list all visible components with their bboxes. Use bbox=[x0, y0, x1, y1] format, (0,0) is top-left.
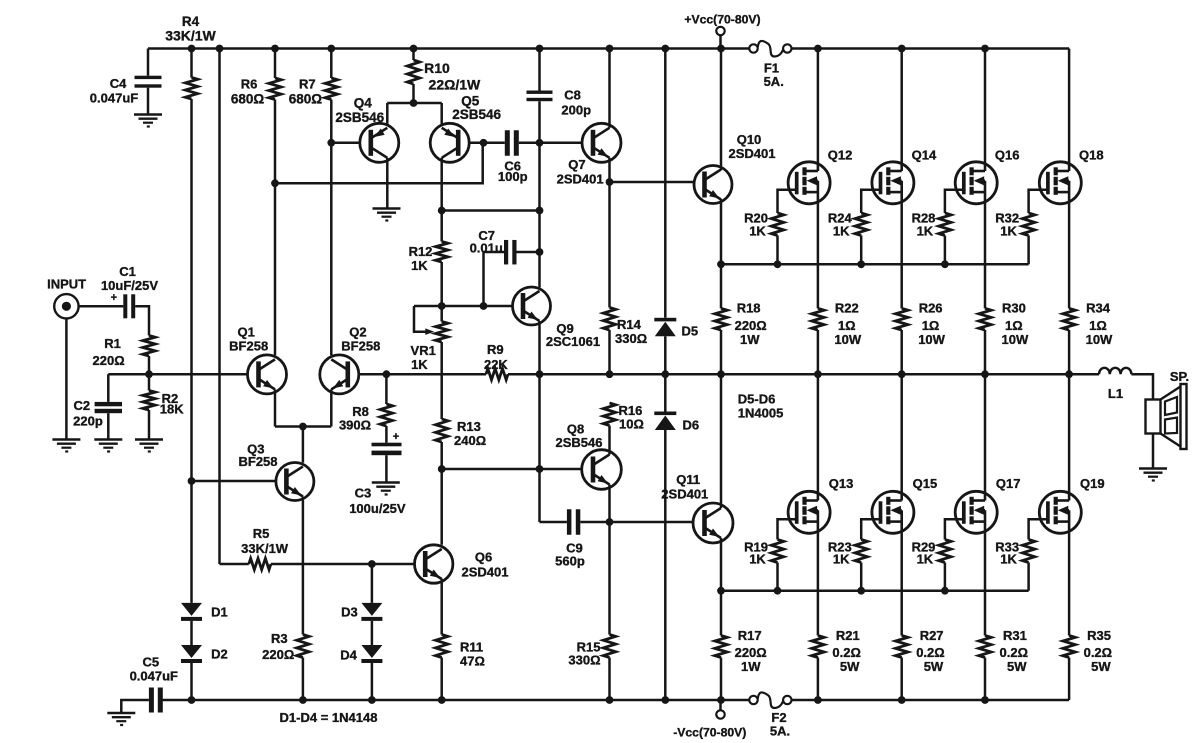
wire bbox=[121, 700, 149, 713]
wire (Q15 gate) bbox=[861, 519, 880, 539]
svg-text:D3: D3 bbox=[341, 604, 358, 619]
wire (Q15 drain) bbox=[900, 374, 903, 491]
junction bbox=[814, 45, 822, 53]
svg-text:+Vcc(70-80V): +Vcc(70-80V) bbox=[684, 13, 760, 27]
mosfet Q17 bbox=[955, 476, 1020, 533]
svg-text:1N4005: 1N4005 bbox=[738, 406, 784, 421]
junction (Q4 base) bbox=[327, 139, 335, 147]
junction bbox=[814, 370, 822, 378]
resistor R3 bbox=[262, 631, 309, 662]
capacitor C5 bbox=[130, 654, 178, 712]
svg-text:R30: R30 bbox=[1002, 301, 1026, 316]
svg-text:R6: R6 bbox=[241, 77, 258, 92]
wire (Q16 drain) bbox=[984, 49, 987, 163]
wire (to Q8 base) bbox=[442, 468, 540, 471]
ground (C2) bbox=[94, 440, 122, 452]
svg-text:Q14: Q14 bbox=[912, 148, 937, 163]
wire (Q4/Q5 emitters) bbox=[387, 103, 441, 124]
mosfet Q18 bbox=[1039, 148, 1103, 204]
svg-text:560p: 560p bbox=[555, 554, 585, 569]
transistor Q11 bbox=[661, 472, 733, 543]
svg-text:0.2Ω: 0.2Ω bbox=[1000, 645, 1029, 660]
resistor R20 bbox=[744, 210, 784, 264]
transistor Q10 bbox=[694, 132, 775, 204]
svg-text:200p: 200p bbox=[561, 103, 591, 118]
svg-text:BF258: BF258 bbox=[341, 339, 380, 354]
junction bbox=[299, 423, 307, 431]
resistor R6 bbox=[231, 49, 281, 107]
svg-text:2SD401: 2SD401 bbox=[557, 172, 604, 187]
svg-text:1K: 1K bbox=[1000, 223, 1017, 238]
wire (R4 to D1) bbox=[190, 99, 193, 603]
junction bbox=[814, 696, 822, 704]
svg-text:5W: 5W bbox=[1007, 659, 1027, 674]
junction bbox=[536, 207, 544, 215]
junction bbox=[271, 179, 279, 187]
svg-text:L1: L1 bbox=[1108, 386, 1123, 401]
mosfet Q14 bbox=[872, 148, 937, 204]
svg-text:10W: 10W bbox=[834, 332, 861, 347]
svg-text:Q7: Q7 bbox=[568, 157, 585, 172]
svg-text:5W: 5W bbox=[840, 659, 860, 674]
svg-text:33K/1W: 33K/1W bbox=[241, 541, 289, 556]
junction bbox=[857, 260, 865, 268]
wire bbox=[608, 330, 611, 374]
wire (Q14 source) bbox=[900, 204, 903, 309]
junction bbox=[536, 139, 544, 147]
junction (Q8 base) bbox=[536, 465, 544, 473]
svg-text:D2: D2 bbox=[211, 646, 228, 661]
junction bbox=[606, 370, 614, 378]
mosfet Q12 bbox=[788, 148, 852, 204]
diode D3 bbox=[341, 603, 382, 621]
svg-text:5A.: 5A. bbox=[770, 724, 790, 739]
svg-text:Q11: Q11 bbox=[676, 472, 700, 487]
svg-text:C1: C1 bbox=[119, 264, 136, 279]
svg-text:Q16: Q16 bbox=[995, 148, 1020, 163]
wire (Q4 base) bbox=[331, 142, 360, 145]
wire (Q13 drain) bbox=[817, 374, 820, 491]
junction bbox=[606, 178, 614, 186]
input jack bbox=[47, 276, 86, 318]
transistor Q5 bbox=[430, 94, 501, 163]
wire (driver rail to Q10 base) bbox=[610, 181, 695, 184]
wire (Vcc to R5) bbox=[218, 49, 221, 565]
svg-text:0.01u: 0.01u bbox=[470, 241, 503, 256]
resistor R12 bbox=[409, 242, 448, 273]
svg-text:INPUT: INPUT bbox=[47, 276, 86, 291]
fuse F1 bbox=[749, 41, 791, 89]
wire (Q9 base) bbox=[414, 305, 513, 308]
ground (input) bbox=[52, 440, 80, 452]
wire (Q18 drain) bbox=[1068, 49, 1071, 163]
junction bbox=[717, 587, 725, 595]
svg-text:R14: R14 bbox=[617, 317, 642, 332]
transistor Q4 bbox=[335, 96, 398, 163]
svg-text:1K: 1K bbox=[749, 551, 766, 566]
junction bbox=[1065, 370, 1073, 378]
junction bbox=[898, 370, 906, 378]
svg-text:2SD401: 2SD401 bbox=[462, 565, 509, 580]
wire (Q10 collector) bbox=[720, 49, 723, 171]
svg-text:BF258: BF258 bbox=[238, 454, 277, 469]
wire (Q8 base) bbox=[540, 468, 582, 471]
svg-text:2SD401: 2SD401 bbox=[729, 146, 776, 161]
wire (speaker ground) bbox=[1152, 434, 1155, 469]
diode D6 bbox=[654, 412, 699, 433]
resistor R34 bbox=[1063, 301, 1113, 375]
wire (Q2 emitter) bbox=[330, 389, 333, 426]
svg-text:1K: 1K bbox=[833, 551, 850, 566]
svg-text:R21: R21 bbox=[836, 628, 860, 643]
svg-text:1K: 1K bbox=[833, 223, 850, 238]
svg-text:R9: R9 bbox=[487, 342, 504, 357]
svg-text:0.047uF: 0.047uF bbox=[90, 91, 138, 106]
resistor R21 bbox=[812, 628, 861, 700]
svg-text:C2: C2 bbox=[73, 398, 90, 413]
wire bbox=[79, 305, 124, 308]
junction bbox=[661, 696, 669, 704]
svg-text:R12: R12 bbox=[409, 244, 433, 259]
svg-text:R5: R5 bbox=[253, 526, 270, 541]
svg-text:33K/1W: 33K/1W bbox=[165, 28, 216, 44]
wire (Q19 source) bbox=[1068, 533, 1071, 635]
transistor Q6 bbox=[415, 545, 509, 583]
svg-text:R27: R27 bbox=[920, 628, 944, 643]
wire (C6 to Q7 base) bbox=[519, 142, 582, 145]
wire (Q17 gate) bbox=[945, 519, 964, 539]
junction bbox=[774, 260, 782, 268]
transistor Q9 bbox=[513, 287, 601, 349]
svg-text:1Ω: 1Ω bbox=[838, 318, 856, 333]
wire (Q14 gate) bbox=[861, 190, 880, 213]
junction bbox=[717, 260, 725, 268]
svg-text:22Ω/1W: 22Ω/1W bbox=[429, 77, 481, 93]
wire (Q18 gate) bbox=[1029, 190, 1048, 213]
wire (Q7 emitter) bbox=[608, 158, 611, 182]
wire (lower gate rail) bbox=[721, 589, 1029, 592]
svg-text:R7: R7 bbox=[299, 77, 316, 92]
junction bbox=[606, 696, 614, 704]
junction bbox=[536, 248, 544, 256]
wire (R16 to Q8 collector) bbox=[608, 426, 611, 455]
wire (Q10 emitter) bbox=[720, 199, 723, 264]
svg-text:Q19: Q19 bbox=[1080, 476, 1105, 491]
note D5-D6 bbox=[738, 392, 784, 421]
svg-text:Q13: Q13 bbox=[829, 476, 854, 491]
junction bbox=[299, 696, 307, 704]
wire (emitter join) bbox=[275, 425, 331, 428]
wire bbox=[302, 658, 305, 701]
capacitor C2 bbox=[73, 374, 122, 439]
wire (Q5 collector column) bbox=[440, 158, 443, 242]
svg-text:Q1: Q1 bbox=[238, 325, 255, 340]
wire bbox=[148, 356, 151, 374]
junction bbox=[941, 260, 949, 268]
svg-text:R13: R13 bbox=[457, 419, 481, 434]
speaker SP bbox=[1146, 369, 1190, 449]
svg-text:R26: R26 bbox=[919, 301, 943, 316]
resistor R26 bbox=[896, 301, 946, 375]
svg-text:2SB546: 2SB546 bbox=[335, 110, 384, 125]
junction bbox=[188, 45, 196, 53]
svg-text:R35: R35 bbox=[1087, 628, 1111, 643]
capacitor C3 bbox=[349, 426, 406, 516]
wire (upper gate rail) bbox=[721, 263, 1029, 266]
svg-text:Q12: Q12 bbox=[828, 148, 853, 163]
wire (Q12 gate) bbox=[778, 190, 797, 213]
diode D5 bbox=[654, 318, 698, 339]
svg-text:47Ω: 47Ω bbox=[460, 654, 485, 669]
diode D4 bbox=[340, 645, 382, 663]
inductor L1 bbox=[1099, 368, 1131, 401]
resistor R18 bbox=[715, 264, 767, 374]
wire (R7 to Q2 collector) bbox=[330, 100, 333, 356]
svg-text:680Ω: 680Ω bbox=[231, 92, 265, 107]
wire bbox=[608, 658, 611, 701]
wire (Q13 gate) bbox=[778, 519, 797, 539]
junction bbox=[661, 45, 669, 53]
svg-text:C8: C8 bbox=[564, 88, 581, 103]
svg-text:D5: D5 bbox=[682, 324, 699, 339]
capacitor C7 bbox=[470, 228, 540, 306]
resistor R33 bbox=[995, 540, 1035, 591]
junction (Q3 base) bbox=[188, 477, 196, 485]
wire bbox=[440, 658, 443, 701]
junction bbox=[981, 370, 989, 378]
svg-text:R11: R11 bbox=[460, 640, 483, 655]
resistor R22 bbox=[812, 301, 862, 375]
svg-text:1W: 1W bbox=[741, 659, 761, 674]
svg-text:10Ω: 10Ω bbox=[619, 417, 644, 432]
junction bbox=[857, 587, 865, 595]
wire (Q6 emitter) bbox=[440, 579, 443, 635]
svg-text:330Ω: 330Ω bbox=[615, 331, 647, 346]
resistor R10 bbox=[407, 49, 481, 104]
junction bbox=[606, 45, 614, 53]
svg-text:0.2Ω: 0.2Ω bbox=[1084, 645, 1113, 660]
junction bbox=[216, 45, 224, 53]
capacitor C9 bbox=[540, 509, 694, 568]
svg-text:2SD401: 2SD401 bbox=[661, 487, 708, 502]
junction bbox=[606, 518, 614, 526]
junction bbox=[898, 45, 906, 53]
wire (Q14 drain) bbox=[900, 49, 903, 163]
svg-text:Q10: Q10 bbox=[737, 132, 762, 147]
svg-text:10W: 10W bbox=[1002, 332, 1029, 347]
transistor Q3 bbox=[238, 442, 313, 501]
wire bbox=[190, 621, 193, 645]
wire (R13 to Q6 collector) bbox=[440, 442, 443, 545]
svg-text:240Ω: 240Ω bbox=[454, 433, 486, 448]
svg-text:10W: 10W bbox=[918, 332, 945, 347]
svg-text:10uF/25V: 10uF/25V bbox=[101, 278, 158, 293]
wire (jack ground) bbox=[65, 319, 68, 440]
wire (Q15 source) bbox=[900, 533, 903, 635]
resistor R24 bbox=[828, 210, 868, 264]
resistor R23 bbox=[828, 540, 868, 591]
resistor R19 bbox=[744, 540, 784, 591]
svg-text:Q18: Q18 bbox=[1079, 148, 1104, 163]
wire (signal rail left) bbox=[108, 373, 247, 376]
svg-text:1Ω: 1Ω bbox=[1089, 318, 1107, 333]
svg-text:100p: 100p bbox=[498, 169, 528, 184]
svg-text:5A.: 5A. bbox=[764, 74, 784, 89]
wire (tail) bbox=[302, 427, 305, 463]
wire bbox=[608, 182, 611, 308]
svg-text:R34: R34 bbox=[1086, 301, 1111, 316]
junction bbox=[438, 302, 446, 310]
junction bbox=[410, 45, 418, 53]
ground (C3) bbox=[372, 483, 400, 495]
svg-text:C3: C3 bbox=[355, 485, 372, 500]
svg-text:1K: 1K bbox=[917, 551, 934, 566]
resistor R1 bbox=[93, 336, 156, 369]
wire (Q5 base to C6) bbox=[469, 142, 505, 145]
svg-text:1K: 1K bbox=[411, 258, 428, 273]
svg-text:680Ω: 680Ω bbox=[289, 92, 323, 107]
svg-text:220Ω: 220Ω bbox=[93, 353, 125, 368]
svg-text:1K: 1K bbox=[1000, 551, 1017, 566]
junction bbox=[898, 696, 906, 704]
svg-text:0.2Ω: 0.2Ω bbox=[916, 645, 945, 660]
junction (D3 string) bbox=[368, 560, 376, 568]
ground (C4) bbox=[134, 115, 162, 127]
junction bbox=[717, 370, 725, 378]
svg-text:2SB546: 2SB546 bbox=[452, 107, 501, 122]
junction bbox=[438, 207, 446, 215]
wire (Q8 emitter) bbox=[608, 485, 611, 523]
resistor R5 bbox=[220, 526, 289, 570]
svg-text:C5: C5 bbox=[142, 654, 159, 669]
wire (Q19 gate) bbox=[1029, 519, 1048, 539]
svg-text:D4: D4 bbox=[340, 647, 357, 662]
wire bbox=[440, 342, 443, 419]
svg-text:D6: D6 bbox=[683, 418, 700, 433]
mosfet Q13 bbox=[788, 476, 853, 533]
transistor Q8 bbox=[556, 422, 622, 490]
ground (C5) bbox=[107, 713, 135, 725]
svg-text:Q4: Q4 bbox=[354, 96, 373, 111]
wire (Q12 drain) bbox=[817, 49, 820, 163]
junction bbox=[271, 45, 279, 53]
svg-text:2SC1061: 2SC1061 bbox=[546, 334, 600, 349]
resistor R31 bbox=[979, 628, 1028, 700]
junction bbox=[717, 45, 725, 53]
wire (x539 column) bbox=[538, 374, 541, 522]
diode D1 bbox=[181, 603, 228, 621]
wire bbox=[135, 306, 149, 335]
wire (Q9 emitter) bbox=[538, 321, 541, 374]
note D1-D4 bbox=[280, 710, 378, 725]
junction bbox=[717, 696, 725, 704]
svg-text:R31: R31 bbox=[1003, 628, 1027, 643]
svg-text:1Ω: 1Ω bbox=[1005, 318, 1023, 333]
svg-text:+: + bbox=[111, 292, 117, 304]
svg-text:Q2: Q2 bbox=[349, 325, 366, 340]
svg-text:R3: R3 bbox=[271, 631, 288, 646]
resistor R27 bbox=[896, 628, 945, 700]
mosfet Q19 bbox=[1039, 476, 1104, 533]
wire bbox=[190, 663, 193, 700]
svg-text:220Ω: 220Ω bbox=[262, 647, 294, 662]
wire bbox=[371, 564, 374, 603]
resistor R28 bbox=[912, 210, 952, 264]
diode D2 bbox=[181, 645, 228, 663]
wire bbox=[371, 663, 374, 700]
svg-text:0.2Ω: 0.2Ω bbox=[832, 645, 861, 660]
junction bbox=[941, 587, 949, 595]
resistor R2 bbox=[143, 374, 184, 439]
svg-text:1K: 1K bbox=[411, 357, 428, 372]
svg-text:C4: C4 bbox=[110, 76, 127, 91]
wire (output rail) bbox=[508, 373, 1099, 376]
svg-text:D1: D1 bbox=[211, 604, 228, 619]
svg-text:D5-D6: D5-D6 bbox=[738, 392, 776, 407]
ground (R2) bbox=[135, 440, 163, 452]
+Vcc terminal bbox=[684, 13, 760, 49]
wire (Q16 gate) bbox=[945, 190, 964, 213]
resistor R4 bbox=[165, 14, 216, 99]
wire (Q1 collector rail) bbox=[275, 143, 483, 183]
junction bbox=[480, 302, 488, 310]
wire bbox=[371, 621, 374, 645]
junction bbox=[383, 370, 391, 378]
-Vcc power rail (bottom) bbox=[162, 699, 1069, 702]
junction bbox=[188, 696, 196, 704]
svg-text:SP.: SP. bbox=[1170, 369, 1189, 384]
transistor Q7 bbox=[557, 123, 621, 186]
svg-text:1W: 1W bbox=[740, 332, 760, 347]
resistor R32 bbox=[995, 210, 1035, 264]
resistor R29 bbox=[912, 540, 952, 591]
wire (Q17 source) bbox=[984, 533, 987, 635]
wire (Q18 source) bbox=[1068, 204, 1071, 309]
capacitor C6 bbox=[498, 130, 528, 184]
wire bbox=[664, 430, 667, 700]
svg-text:1Ω: 1Ω bbox=[922, 318, 940, 333]
capacitor C1 bbox=[101, 264, 158, 318]
svg-text:2SB546: 2SB546 bbox=[556, 435, 603, 450]
wire (Q13 source) bbox=[817, 533, 820, 635]
wire bbox=[664, 49, 667, 318]
svg-text:R1: R1 bbox=[104, 336, 121, 351]
junction bbox=[661, 370, 669, 378]
resistor R17 bbox=[715, 591, 767, 700]
resistor R13 bbox=[436, 419, 487, 448]
svg-text:100u/25V: 100u/25V bbox=[349, 501, 406, 516]
wire (R5 to Q6 base) bbox=[271, 563, 415, 566]
wire (C8 to Q9) bbox=[538, 101, 541, 287]
svg-text:1K: 1K bbox=[917, 223, 934, 238]
resistor R9 bbox=[484, 342, 508, 380]
junction bbox=[774, 587, 782, 595]
wire (R12 tap) bbox=[442, 209, 540, 212]
svg-text:Q17: Q17 bbox=[996, 476, 1021, 491]
mosfet Q15 bbox=[872, 476, 937, 533]
junction bbox=[536, 370, 544, 378]
junction (R10 bottom) bbox=[410, 99, 418, 107]
ground (Q4) bbox=[373, 209, 401, 221]
ground (speaker) bbox=[1139, 469, 1167, 481]
transistor Q2 bbox=[320, 325, 381, 394]
wire bbox=[440, 262, 443, 322]
mosfet Q16 bbox=[955, 148, 1019, 204]
wire (Q4 collector to ground) bbox=[386, 158, 389, 209]
resistor R16 bbox=[603, 403, 644, 432]
svg-text:5W: 5W bbox=[924, 659, 944, 674]
wire (Q3 base) bbox=[192, 480, 276, 483]
